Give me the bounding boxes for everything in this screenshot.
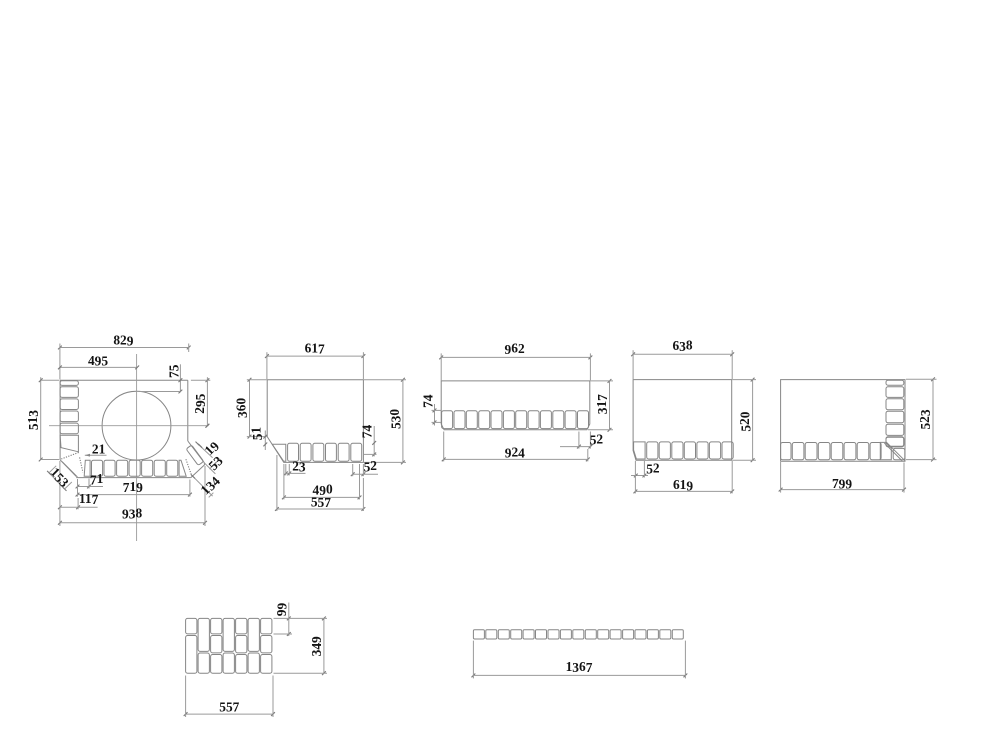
dimension 317 (588, 379, 613, 432)
dimension 52 (V2) (351, 458, 378, 476)
svg-text:52: 52 (590, 431, 604, 447)
dimension 71 (76, 471, 104, 488)
dimension 638 (631, 338, 734, 379)
corner tile (893, 448, 905, 459)
svg-text:52: 52 (364, 458, 378, 474)
svg-text:638: 638 (672, 338, 692, 354)
tile row V3 (442, 411, 589, 429)
svg-text:74: 74 (360, 425, 375, 439)
svg-text:117: 117 (79, 491, 99, 507)
dimension 23 (284, 458, 306, 475)
dimension 99 (274, 603, 293, 637)
svg-text:99: 99 (274, 603, 289, 617)
svg-text:21: 21 (92, 442, 105, 457)
dimension 1367 (472, 641, 688, 679)
panel V3 outline (441, 381, 590, 430)
dimension 962 (439, 341, 592, 381)
svg-text:349: 349 (309, 636, 324, 656)
svg-text:617: 617 (305, 340, 325, 356)
svg-text:962: 962 (505, 341, 525, 357)
tile row V5 bottom (781, 442, 905, 459)
svg-text:360: 360 (234, 398, 250, 418)
svg-text:71: 71 (90, 471, 103, 487)
dimension 53 diagonal (204, 453, 226, 474)
dimension 19 diagonal (196, 438, 223, 459)
svg-text:295: 295 (192, 393, 208, 413)
svg-text:829: 829 (113, 333, 133, 349)
svg-text:938: 938 (122, 505, 142, 521)
wedge tile left (84, 460, 90, 476)
svg-text:719: 719 (123, 479, 143, 495)
dimension 617 (265, 340, 365, 379)
dimension 719 (76, 479, 192, 497)
miter-cut row tile (880, 442, 891, 459)
tile row V1 bottom (84, 460, 186, 476)
tile column V1 left (60, 381, 78, 452)
wedge tile right (179, 460, 186, 476)
dimension 829 (58, 333, 191, 380)
plan detail: brick bond pattern (186, 618, 272, 673)
dimension 75 (140, 364, 182, 393)
svg-text:520: 520 (737, 411, 753, 431)
svg-text:619: 619 (673, 477, 693, 493)
svg-text:557: 557 (219, 699, 239, 714)
dimension 349 (274, 617, 328, 676)
tile column V5 right (886, 380, 904, 447)
dimension 153 diagonal (47, 464, 73, 490)
dimension 117 (58, 491, 99, 509)
dimension 360 (234, 378, 267, 439)
dimension 523 (906, 377, 937, 461)
dimension 520 (732, 378, 756, 462)
panel V4 outline (633, 380, 732, 461)
dimension 938 (58, 461, 207, 526)
svg-text:1367: 1367 (566, 659, 593, 675)
dimension 52 (V4) (631, 460, 660, 477)
dimension 51 (249, 427, 268, 450)
dimension 52 (V3) (560, 431, 603, 448)
svg-text:513: 513 (25, 410, 41, 430)
dimension 557 (275, 455, 365, 511)
svg-text:74: 74 (420, 394, 435, 408)
svg-text:523: 523 (917, 409, 933, 429)
svg-text:495: 495 (88, 353, 108, 368)
dimension 490 (282, 464, 361, 499)
dimension 799 (779, 462, 906, 493)
panel V5 outline (781, 380, 905, 462)
tile with skewed bottom (60, 435, 78, 452)
plan detail: tile strip (473, 630, 683, 639)
tile row V4 (634, 442, 734, 459)
miter-cut column tile (886, 437, 904, 447)
corner fan V1 right with wing tile (186, 445, 204, 475)
svg-text:75: 75 (167, 364, 182, 378)
panel V1 outline (60, 380, 205, 477)
svg-text:51: 51 (249, 427, 265, 440)
dimension 513 (25, 377, 59, 461)
dimension 530 (364, 378, 406, 465)
dimension 295 (191, 377, 210, 427)
svg-text:557: 557 (311, 495, 331, 510)
tile row V2 (272, 443, 361, 461)
dimension 495 (58, 353, 139, 369)
svg-text:23: 23 (292, 458, 306, 474)
dimension 619 (634, 461, 735, 493)
svg-text:530: 530 (387, 409, 403, 429)
dimension 557 (184, 676, 275, 718)
wedge tile (634, 442, 646, 459)
centerline horizontal V1 (49, 424, 209, 428)
svg-text:317: 317 (594, 394, 610, 414)
dimension 74 (V3) (420, 394, 441, 425)
miter joint V5 (884, 442, 905, 461)
svg-text:924: 924 (505, 444, 525, 460)
circle opening V1 (102, 391, 171, 460)
panel V2 outline (267, 380, 363, 463)
corner fan V1 left (61, 452, 83, 477)
centerline vertical V1 (136, 354, 138, 541)
dimension 21 (85, 442, 107, 457)
svg-text:52: 52 (646, 460, 660, 476)
dimension 134 diagonal (191, 472, 223, 498)
wedge tile (272, 444, 286, 461)
svg-text:799: 799 (832, 476, 852, 491)
dimension 74 (V2) (360, 425, 377, 457)
dimension 924 (442, 432, 590, 462)
